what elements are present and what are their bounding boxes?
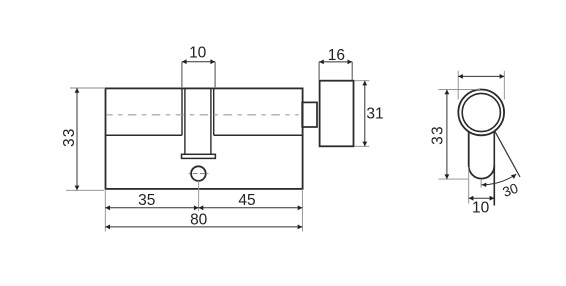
profile dim 33 extension bottom <box>439 178 469 180</box>
dim 31 extension line bottom <box>355 145 370 147</box>
dim 10 arrow left <box>182 59 187 64</box>
profile dim 33 extension top <box>439 89 481 91</box>
svg-text:30: 30 <box>501 180 521 199</box>
body seam line left segment <box>106 134 183 136</box>
body seam line right segment <box>214 134 303 136</box>
profile view inner circle <box>462 93 500 131</box>
cam slot outer wall right <box>213 88 215 135</box>
dim 45 arrow right <box>298 205 303 210</box>
profile bottom center tick <box>480 180 482 188</box>
svg-text:10: 10 <box>472 199 490 216</box>
dim 16 extension line left <box>318 62 320 80</box>
dim 31 dimension line <box>364 81 366 147</box>
cam slot bottom plate <box>182 154 216 158</box>
profile dim 10 extension left <box>468 167 470 204</box>
dim 35/45 left body extension line <box>104 189 106 232</box>
profile dim 10 arrow left <box>469 196 474 201</box>
dim 10 dimension line <box>182 61 215 63</box>
profile dim top dimension line <box>458 75 504 77</box>
dim 31 extension line top <box>355 80 370 82</box>
angle 30 arc <box>482 174 517 185</box>
profile dim top extension left <box>457 71 459 100</box>
dim 10 extension line left <box>181 62 183 87</box>
dim 80 arrow left <box>105 225 110 230</box>
keyhole dashed centerline <box>189 173 209 175</box>
dim 33 left arrow bottom <box>75 186 80 191</box>
body dashed axis centerline <box>107 114 299 116</box>
dim 16 arrow right <box>348 60 353 65</box>
profile dim 33 arrow top <box>445 90 450 95</box>
keyhole circle <box>191 166 206 181</box>
profile dim top arrow left <box>458 74 463 79</box>
profile dim top arrow right <box>500 74 505 79</box>
profile stem bottom arc <box>469 166 495 179</box>
svg-text:33: 33 <box>61 127 78 147</box>
svg-text:35: 35 <box>138 192 155 209</box>
dim 16 extension line right <box>351 62 353 80</box>
cam slot inner wall left <box>184 88 186 154</box>
dim 45 arrow left at center <box>199 205 204 210</box>
dim 35/45 right body extension line <box>301 189 303 232</box>
dim 80 dimension line <box>105 226 302 228</box>
profile dim 33 dimension line <box>446 90 448 180</box>
profile taper reference diagonal <box>495 131 520 177</box>
profile stem right side <box>493 131 495 205</box>
dim 10 extension line right <box>214 62 216 87</box>
angle 30 arrow right <box>511 174 516 179</box>
dim 35/45 dimension line <box>105 207 302 209</box>
dim 33 left extension line top <box>70 87 104 89</box>
profile dim 10 dimension line <box>469 197 495 199</box>
cam slot outer wall left <box>181 88 183 135</box>
profile view outer circle <box>458 90 504 136</box>
profile dim top extension right <box>503 71 505 100</box>
dim 33 left arrow top <box>75 88 80 93</box>
dim 35 arrow right at center <box>194 205 199 210</box>
svg-text:80: 80 <box>190 211 208 228</box>
dim 31 arrow bottom <box>362 142 367 147</box>
angle 30 arrow left <box>482 183 487 187</box>
profile dim 10 arrow right <box>490 196 495 201</box>
knob neck <box>302 102 317 127</box>
cylinder body outline <box>106 88 303 188</box>
cam slot inner wall right <box>210 88 212 154</box>
dim 16 arrow left <box>319 60 324 65</box>
dim 35 arrow left <box>105 205 110 210</box>
svg-text:45: 45 <box>238 192 255 209</box>
dim 31 arrow top <box>362 81 367 86</box>
svg-text:10: 10 <box>189 44 207 61</box>
svg-text:16: 16 <box>328 47 345 64</box>
dim 80 arrow right <box>298 225 303 230</box>
keyhole vertical centerline <box>198 181 200 211</box>
profile stem left side <box>468 132 470 166</box>
dim 33 left extension line bottom <box>66 189 104 191</box>
svg-text:33: 33 <box>429 125 446 145</box>
dim 10 arrow right <box>210 59 215 64</box>
dim 33 left dimension line <box>76 88 78 190</box>
profile dim 33 arrow bottom <box>445 174 450 179</box>
thumbturn knob <box>320 81 354 147</box>
svg-text:31: 31 <box>366 105 383 122</box>
dim 16 dimension line <box>319 61 352 63</box>
